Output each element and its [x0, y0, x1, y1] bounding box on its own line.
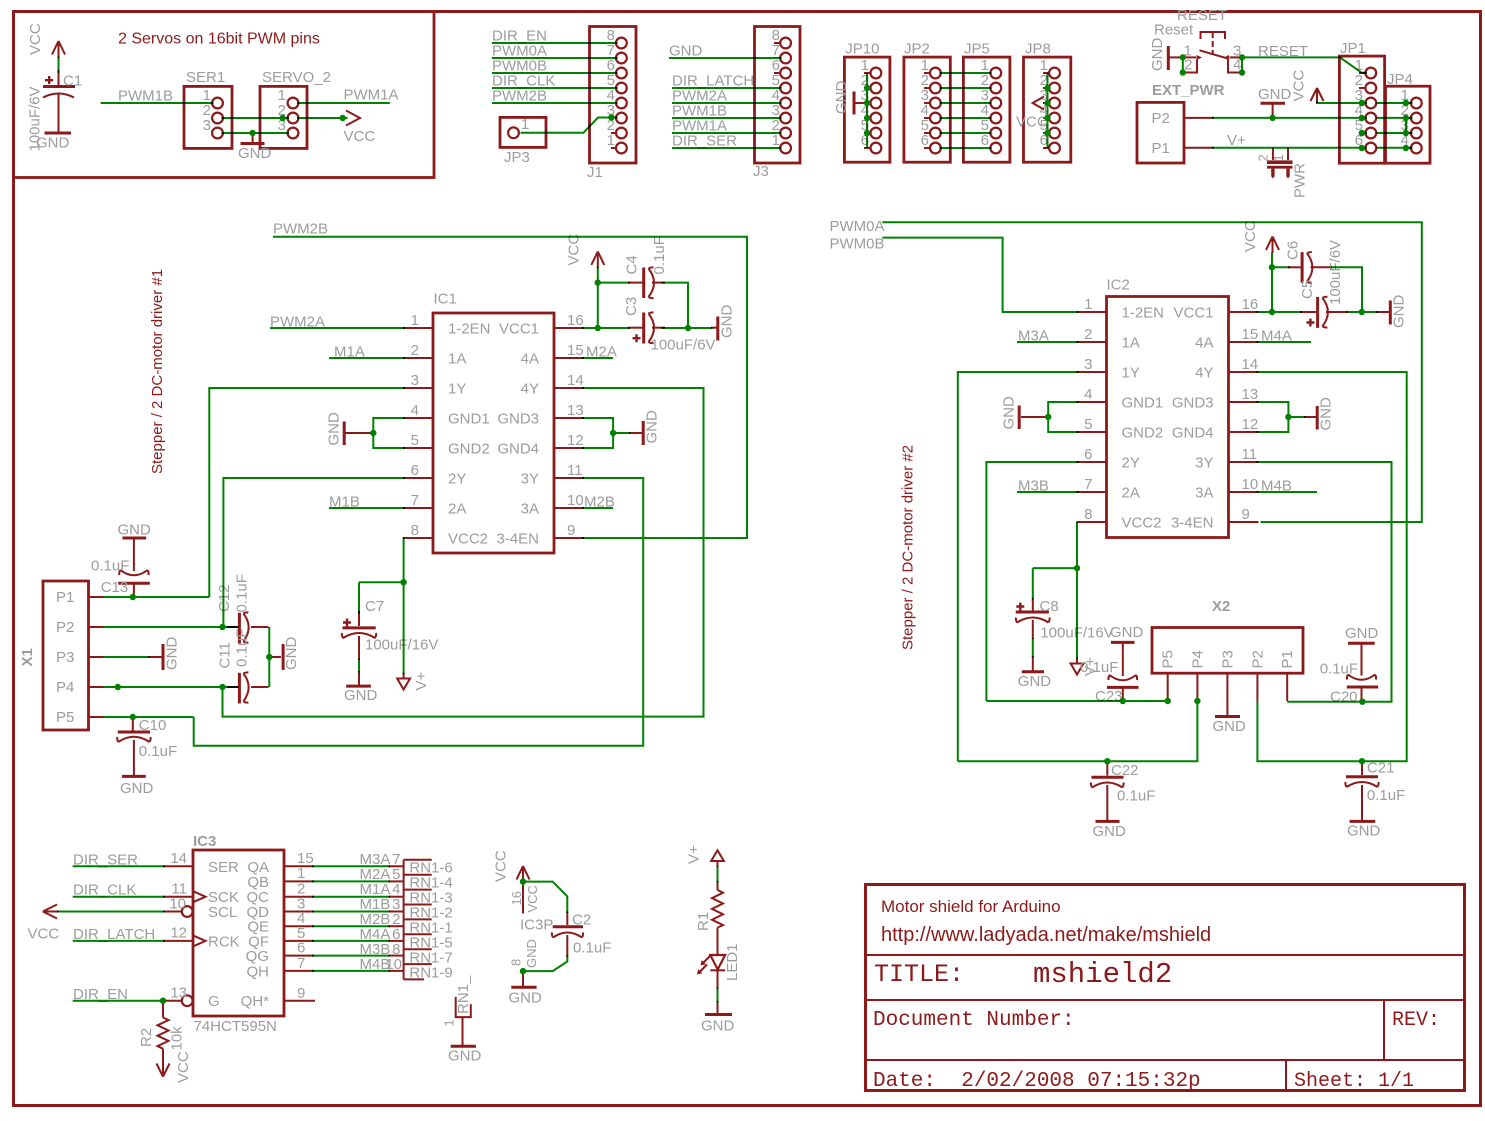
svg-text:V+: V+ — [686, 845, 703, 864]
svg-text:GND3: GND3 — [497, 411, 539, 428]
svg-text:0.1uF: 0.1uF — [91, 558, 129, 575]
svg-text:0.1uF: 0.1uF — [234, 629, 251, 667]
svg-text:RN1_: RN1_ — [455, 975, 472, 1014]
svg-text:VCC: VCC — [28, 926, 60, 943]
svg-text:JP3: JP3 — [504, 149, 530, 166]
svg-text:4: 4 — [411, 402, 419, 419]
svg-text:2Y: 2Y — [448, 471, 466, 488]
svg-text:3Y: 3Y — [521, 471, 539, 488]
svg-text:GND: GND — [669, 43, 703, 60]
svg-text:2Y: 2Y — [1122, 455, 1140, 472]
svg-text:RCK: RCK — [208, 933, 240, 950]
svg-text:C20: C20 — [1330, 689, 1358, 706]
svg-text:4A: 4A — [521, 351, 539, 368]
svg-text:2A: 2A — [448, 501, 466, 518]
svg-text:12: 12 — [567, 432, 584, 449]
svg-text:3Y: 3Y — [1195, 455, 1213, 472]
svg-text:GND: GND — [1318, 397, 1335, 431]
svg-text:9: 9 — [567, 522, 575, 539]
svg-text:C4: C4 — [624, 255, 641, 274]
svg-text:TITLE:: TITLE: — [874, 960, 964, 989]
svg-text:GND4: GND4 — [1172, 425, 1214, 442]
svg-text:GND3: GND3 — [1172, 395, 1214, 412]
svg-text:6: 6 — [921, 132, 929, 149]
svg-text:100uF/16V: 100uF/16V — [365, 637, 438, 654]
svg-text:PWM2B: PWM2B — [273, 221, 328, 238]
svg-text:VCC1: VCC1 — [499, 321, 539, 338]
svg-text:http://www.ladyada.net/make/ms: http://www.ladyada.net/make/mshield — [881, 924, 1211, 946]
svg-text:1: 1 — [1271, 154, 1286, 161]
svg-text:Date: 2/02/2008 07:15:32p: Date: 2/02/2008 07:15:32p — [873, 1070, 1201, 1093]
svg-text:X2: X2 — [1212, 598, 1230, 615]
svg-text:15: 15 — [567, 342, 584, 359]
svg-text:8: 8 — [1084, 506, 1092, 523]
svg-text:GND: GND — [833, 81, 850, 115]
svg-text:PWM2B: PWM2B — [492, 88, 547, 105]
svg-text:GND: GND — [644, 410, 661, 444]
svg-text:0.1uF: 0.1uF — [1080, 659, 1118, 676]
svg-text:VCC: VCC — [1016, 114, 1048, 131]
svg-text:PWM1A: PWM1A — [344, 87, 399, 104]
svg-text:14: 14 — [170, 850, 187, 867]
svg-text:VCC: VCC — [175, 1051, 192, 1083]
svg-text:C6: C6 — [1285, 241, 1302, 260]
svg-text:C2: C2 — [572, 912, 591, 929]
svg-text:RN1-9: RN1-9 — [409, 965, 452, 982]
svg-text:6: 6 — [1084, 446, 1092, 463]
svg-text:10: 10 — [169, 896, 186, 913]
svg-text:6: 6 — [297, 940, 305, 957]
svg-text:JP1: JP1 — [1340, 40, 1366, 57]
svg-text:QH*: QH* — [241, 993, 270, 1010]
svg-text:P2: P2 — [1249, 650, 1266, 668]
svg-text:12: 12 — [170, 925, 187, 942]
svg-text:IC3P: IC3P — [520, 917, 553, 934]
svg-text:14: 14 — [567, 372, 584, 389]
svg-text:JP5: JP5 — [964, 41, 990, 58]
svg-text:16: 16 — [567, 312, 584, 329]
svg-text:VCC2: VCC2 — [1122, 515, 1162, 532]
svg-text:GND: GND — [524, 939, 539, 968]
svg-text:5: 5 — [1084, 416, 1092, 433]
svg-text:R2: R2 — [138, 1028, 155, 1047]
svg-text:8: 8 — [509, 959, 524, 966]
svg-text:7: 7 — [411, 492, 419, 509]
svg-text:5: 5 — [411, 432, 419, 449]
svg-text:4Y: 4Y — [521, 381, 539, 398]
svg-text:V+: V+ — [1227, 132, 1246, 149]
svg-text:11: 11 — [1242, 446, 1258, 463]
svg-text:100uF/6V: 100uF/6V — [1327, 240, 1344, 305]
svg-text:Sheet: 1/1: Sheet: 1/1 — [1294, 1070, 1414, 1093]
svg-text:GND: GND — [344, 687, 378, 704]
svg-text:P1: P1 — [56, 589, 74, 606]
svg-text:4Y: 4Y — [1195, 365, 1213, 382]
svg-text:0.1uF: 0.1uF — [573, 940, 611, 957]
svg-text:GND: GND — [118, 522, 152, 539]
svg-text:1: 1 — [772, 132, 780, 149]
svg-text:P3: P3 — [1219, 650, 1236, 668]
svg-text:GND: GND — [238, 145, 272, 162]
svg-text:2 Servos on 16bit PWM pins: 2 Servos on 16bit PWM pins — [118, 31, 320, 48]
svg-text:Reset: Reset — [1154, 22, 1194, 39]
svg-text:P2: P2 — [1152, 110, 1170, 127]
svg-text:GND: GND — [1391, 295, 1408, 329]
svg-text:Document Number:: Document Number: — [873, 1009, 1075, 1032]
svg-text:GND: GND — [509, 990, 543, 1007]
svg-text:JP8: JP8 — [1025, 41, 1051, 58]
svg-text:R1: R1 — [695, 912, 712, 931]
svg-text:0.1uF: 0.1uF — [651, 236, 668, 274]
svg-text:8: 8 — [411, 522, 419, 539]
svg-text:GND4: GND4 — [497, 441, 539, 458]
svg-text:GND1: GND1 — [1122, 395, 1164, 412]
svg-text:C13: C13 — [101, 579, 129, 596]
svg-text:JP10: JP10 — [845, 41, 879, 58]
svg-text:VCC: VCC — [1242, 220, 1259, 252]
svg-text:100uF/6V: 100uF/6V — [651, 337, 716, 354]
svg-text:P5: P5 — [56, 709, 74, 726]
svg-text:Motor shield for Arduino: Motor shield for Arduino — [881, 897, 1061, 916]
svg-text:SER1: SER1 — [186, 69, 225, 86]
svg-text:3: 3 — [1084, 356, 1092, 373]
svg-text:GND: GND — [1018, 673, 1052, 690]
svg-text:GND: GND — [1093, 823, 1127, 840]
svg-text:0.1uF: 0.1uF — [234, 574, 251, 612]
svg-text:2: 2 — [411, 342, 419, 359]
svg-text:QH: QH — [247, 963, 270, 980]
svg-text:GND: GND — [120, 780, 154, 797]
svg-text:12: 12 — [1242, 416, 1259, 433]
svg-text:3-4EN: 3-4EN — [1171, 515, 1214, 532]
svg-text:2: 2 — [1256, 154, 1271, 161]
svg-text:3: 3 — [411, 372, 419, 389]
svg-text:P4: P4 — [56, 679, 74, 696]
svg-text:JP4: JP4 — [1387, 71, 1413, 88]
svg-text:JP2: JP2 — [904, 41, 930, 58]
svg-text:13: 13 — [170, 985, 187, 1002]
svg-text:2: 2 — [1084, 326, 1092, 343]
svg-text:EXT_PWR: EXT_PWR — [1152, 82, 1225, 99]
svg-text:GND: GND — [701, 1018, 735, 1035]
svg-text:C11: C11 — [217, 642, 234, 668]
svg-text:VCC: VCC — [525, 885, 540, 912]
svg-text:IC1: IC1 — [434, 291, 457, 308]
svg-text:PWM0A: PWM0A — [830, 218, 885, 235]
svg-text:P3: P3 — [56, 649, 74, 666]
svg-text:10: 10 — [1242, 476, 1259, 493]
svg-text:C3: C3 — [623, 297, 640, 316]
svg-text:1: 1 — [411, 312, 419, 329]
svg-text:1-2EN: 1-2EN — [448, 321, 491, 338]
svg-text:IC2: IC2 — [1107, 277, 1130, 294]
svg-text:C5: C5 — [1299, 280, 1316, 299]
svg-text:C1: C1 — [63, 73, 82, 90]
svg-text:10: 10 — [567, 492, 584, 509]
svg-text:Stepper / 2 DC-motor driver #1: Stepper / 2 DC-motor driver #1 — [149, 269, 166, 474]
svg-text:16: 16 — [509, 891, 524, 905]
svg-text:C7: C7 — [365, 598, 384, 615]
svg-text:GND: GND — [1001, 396, 1018, 430]
svg-text:REV:: REV: — [1392, 1009, 1440, 1032]
svg-text:1Y: 1Y — [1122, 365, 1140, 382]
svg-text:4A: 4A — [1195, 335, 1213, 352]
svg-text:DIR_SER: DIR_SER — [672, 133, 737, 150]
svg-text:P2: P2 — [56, 619, 74, 636]
svg-text:GND: GND — [1149, 38, 1166, 72]
svg-text:C22: C22 — [1111, 762, 1139, 779]
svg-text:GND1: GND1 — [448, 411, 490, 428]
svg-text:G: G — [208, 993, 220, 1010]
svg-text:11: 11 — [567, 462, 583, 479]
svg-text:PWR: PWR — [1292, 163, 1309, 198]
svg-text:C10: C10 — [139, 717, 167, 734]
svg-text:C23: C23 — [1095, 688, 1123, 705]
svg-text:9: 9 — [1242, 506, 1250, 523]
svg-text:1: 1 — [297, 865, 305, 882]
svg-text:GND: GND — [1345, 625, 1379, 642]
svg-text:7: 7 — [1084, 476, 1092, 493]
svg-text:1A: 1A — [448, 351, 466, 368]
svg-text:SCL: SCL — [208, 904, 237, 921]
svg-text:LED1: LED1 — [724, 943, 741, 981]
svg-text:3-4EN: 3-4EN — [496, 531, 539, 548]
svg-text:GND: GND — [1258, 86, 1292, 103]
svg-text:VCC: VCC — [344, 128, 376, 145]
svg-text:GND: GND — [719, 305, 736, 339]
svg-text:4: 4 — [1084, 386, 1092, 403]
svg-text:VCC: VCC — [566, 234, 583, 266]
svg-text:VCC: VCC — [493, 850, 510, 882]
svg-text:1: 1 — [442, 1019, 457, 1026]
svg-text:GND: GND — [325, 412, 342, 446]
svg-text:VCC1: VCC1 — [1173, 305, 1213, 322]
svg-text:SERVO_2: SERVO_2 — [262, 69, 331, 86]
svg-text:X1: X1 — [19, 648, 36, 666]
svg-text:1A: 1A — [1122, 335, 1140, 352]
svg-text:16: 16 — [1242, 296, 1259, 313]
svg-text:V+: V+ — [413, 671, 430, 690]
svg-text:VCC: VCC — [1291, 70, 1308, 102]
svg-text:VCC: VCC — [27, 23, 44, 55]
svg-text:P5: P5 — [1160, 650, 1177, 668]
svg-text:GND: GND — [1347, 823, 1381, 840]
svg-text:6: 6 — [411, 462, 419, 479]
svg-text:0.1uF: 0.1uF — [1320, 661, 1358, 678]
svg-text:0.1uF: 0.1uF — [1367, 787, 1405, 804]
svg-text:1: 1 — [607, 132, 615, 149]
svg-text:SER: SER — [208, 859, 239, 876]
svg-text:1-2EN: 1-2EN — [1122, 305, 1165, 322]
svg-text:6: 6 — [981, 132, 989, 149]
svg-text:C12: C12 — [216, 584, 233, 612]
svg-text:3A: 3A — [521, 501, 539, 518]
svg-text:Stepper / 2 DC-motor driver #2: Stepper / 2 DC-motor driver #2 — [900, 445, 917, 650]
svg-text:J1: J1 — [587, 164, 603, 181]
svg-text:PWM1B: PWM1B — [118, 88, 173, 105]
svg-text:P1: P1 — [1279, 650, 1296, 668]
svg-text:GND2: GND2 — [448, 441, 490, 458]
svg-text:100uF/6V: 100uF/6V — [27, 86, 44, 151]
svg-text:VCC2: VCC2 — [448, 531, 488, 548]
svg-text:GND: GND — [448, 1048, 482, 1065]
svg-text:9: 9 — [297, 985, 305, 1002]
svg-text:mshield2: mshield2 — [1033, 958, 1172, 991]
svg-text:GND: GND — [1213, 718, 1247, 735]
svg-text:1: 1 — [1084, 296, 1092, 313]
svg-text:14: 14 — [1242, 356, 1259, 373]
svg-text:15: 15 — [1242, 326, 1259, 343]
svg-text:PWM0B: PWM0B — [830, 236, 885, 253]
svg-text:7: 7 — [297, 955, 305, 972]
svg-text:GND: GND — [283, 637, 300, 671]
svg-text:IC3: IC3 — [193, 833, 216, 850]
svg-text:2A: 2A — [1122, 485, 1140, 502]
svg-text:GND: GND — [164, 637, 181, 671]
svg-text:0.1uF: 0.1uF — [1117, 788, 1155, 805]
svg-text:J3: J3 — [753, 163, 769, 180]
svg-text:13: 13 — [1242, 386, 1259, 403]
svg-text:3A: 3A — [1195, 485, 1213, 502]
svg-text:74HCT595N: 74HCT595N — [194, 1018, 277, 1035]
svg-text:P4: P4 — [1189, 650, 1206, 668]
svg-text:13: 13 — [567, 402, 584, 419]
svg-text:GND: GND — [1110, 624, 1144, 641]
svg-text:GND2: GND2 — [1122, 425, 1164, 442]
svg-text:1: 1 — [521, 116, 529, 133]
svg-text:P1: P1 — [1152, 140, 1170, 157]
svg-text:C8: C8 — [1040, 598, 1059, 615]
svg-text:3: 3 — [203, 117, 211, 134]
svg-text:1Y: 1Y — [448, 381, 466, 398]
svg-text:10k: 10k — [169, 1026, 186, 1051]
svg-text:0.1uF: 0.1uF — [139, 743, 177, 760]
